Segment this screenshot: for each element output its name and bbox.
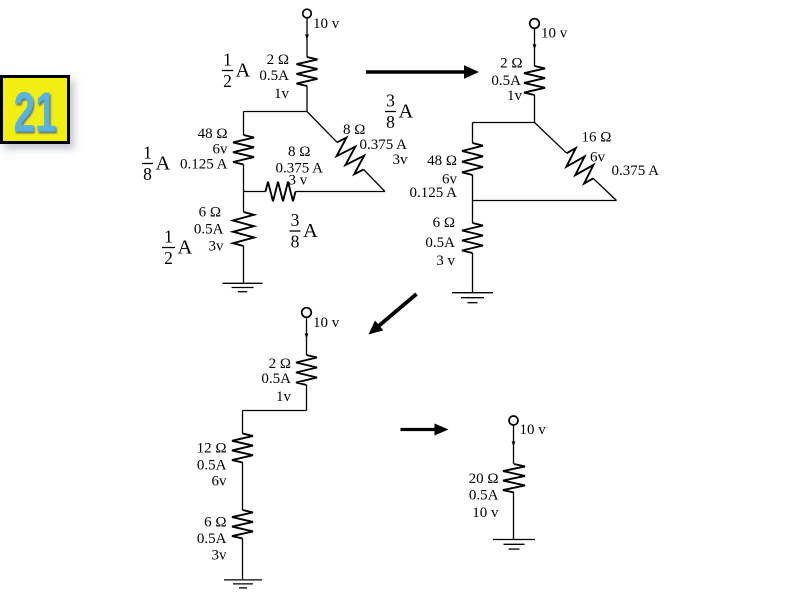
arrow circuit 2 to circuit 3 [369, 294, 417, 335]
label 10 v (circuit 3 source) [313, 315, 340, 331]
wire terminal to R 2ohm (circuit 1) [306, 18, 308, 57]
label 12 ohm value (circuit 3) [197, 441, 227, 457]
label 0.5A (circuit 3 R2) [261, 371, 291, 387]
svg-text:0.125 A: 0.125 A [409, 185, 457, 201]
resistor 20 ohm (circuit 4) [503, 464, 525, 493]
label 0.5A (circuit 1 R6) [194, 222, 224, 238]
current arrow on wire (circuit 2) [533, 44, 537, 49]
resistor 6 ohm (circuit 1) [233, 212, 254, 246]
arrow circuit 1 to circuit 2 [366, 65, 479, 79]
label 0.5A (circuit 2 R6) [425, 235, 455, 251]
label 48 ohm value (circuit 1) [198, 126, 228, 142]
label 6v (circuit 2 R48) [442, 172, 458, 188]
resistor 8 ohm diagonal (circuit 1) [337, 138, 365, 175]
arrow circuit 3 to circuit 4 [401, 424, 449, 436]
svg-text:48 Ω: 48 Ω [427, 153, 457, 169]
svg-text:6 Ω: 6 Ω [199, 205, 221, 221]
label 10 v (circuit 4 R20) [472, 505, 499, 521]
node B horizontal wire (circuit 2) [473, 200, 617, 202]
label 8 ohm value (circuit 1 horizontal) [288, 144, 310, 160]
svg-text:0.5A: 0.5A [194, 222, 224, 238]
label 6 ohm value (circuit 3) [204, 515, 226, 531]
label 3 v (circuit 1 horizontal R8) [289, 173, 308, 189]
svg-text:3v: 3v [393, 152, 409, 168]
svg-text:1v: 1v [274, 86, 290, 102]
svg-text:3: 3 [291, 210, 300, 230]
svg-text:0.5A: 0.5A [469, 488, 499, 504]
wire node A diagonal to R 8ohm diagonal (circuit 1) [307, 112, 337, 143]
current arrow on wire (circuit 4) [512, 441, 516, 446]
wire R 8ohm horizontal to corner (circuit 1) [296, 191, 386, 193]
svg-text:1v: 1v [507, 88, 523, 104]
resistor 12 ohm (circuit 3) [232, 434, 253, 463]
label 10 v (circuit 1 source) [313, 16, 340, 32]
svg-text:0.5A: 0.5A [491, 73, 521, 89]
label 2 ohm value (circuit 2) [500, 56, 522, 72]
ground (circuit 1) [223, 283, 263, 291]
label 0.375 A (circuit 1 diagonal R8) [360, 137, 408, 153]
label 6 ohm value (circuit 1) [199, 205, 221, 221]
label 16 ohm value (circuit 2) [582, 130, 612, 146]
ground (circuit 3) [224, 580, 262, 588]
resistor 16 ohm diagonal (circuit 2) [566, 148, 593, 183]
svg-text:3v: 3v [212, 548, 228, 564]
label 10 v (circuit 2 source) [541, 26, 568, 42]
terminal node 10v (circuit 4) [509, 416, 518, 425]
label 1v (circuit 3 R2) [276, 389, 292, 405]
label 3v (circuit 3 R6) [212, 548, 228, 564]
svg-text:6v: 6v [212, 474, 228, 490]
current arrow on wire (circuit 3) [305, 333, 309, 338]
terminal node 10v (circuit 3) [302, 308, 312, 318]
svg-text:A: A [156, 153, 171, 175]
label 6 ohm value (circuit 2) [433, 215, 455, 231]
label 0.5A (circuit 1 R2) [259, 68, 289, 84]
svg-text:10 v: 10 v [472, 505, 499, 521]
label 2 ohm value (circuit 1) [267, 52, 289, 68]
wire R 16ohm to corner (circuit 2) [593, 178, 616, 200]
fraction 1/2 A (circuit 1 bottom) [162, 227, 193, 269]
ground (circuit 2) [452, 293, 493, 303]
svg-text:A: A [178, 237, 193, 259]
label 3 v (circuit 2 R6) [436, 253, 455, 269]
svg-text:6 Ω: 6 Ω [204, 515, 226, 531]
svg-text:10 v: 10 v [541, 26, 568, 42]
svg-text:1: 1 [164, 227, 173, 247]
wire node A diagonal to R 16ohm (circuit 2) [535, 123, 567, 154]
resistor 6 ohm (circuit 3) [232, 510, 253, 539]
label 0.5A (circuit 3 R12) [197, 458, 227, 474]
wire R 6ohm to ground (circuit 2) [472, 253, 474, 292]
label 0.5A (circuit 2 R2) [491, 73, 521, 89]
label 1v (circuit 1 R2) [274, 86, 290, 102]
resistor 48 ohm (circuit 1) [233, 135, 254, 165]
svg-text:2 Ω: 2 Ω [269, 356, 291, 372]
svg-text:8: 8 [291, 232, 300, 252]
svg-text:6v: 6v [213, 142, 229, 158]
wire terminal to R 2ohm (circuit 3) [306, 318, 308, 356]
resistor 48 ohm (circuit 2) [462, 143, 483, 175]
terminal node 10v (circuit 2) [530, 19, 540, 29]
svg-text:0.5A: 0.5A [197, 531, 227, 547]
fraction 3/8 A (circuit 1 bottom right) [290, 210, 319, 252]
svg-text:8: 8 [386, 112, 395, 132]
svg-text:48 Ω: 48 Ω [198, 126, 228, 142]
resistor 2 ohm (circuit 3) [296, 355, 317, 385]
wire R 12ohm to R 6ohm (circuit 3) [242, 463, 244, 511]
svg-text:20 Ω: 20 Ω [469, 471, 499, 487]
resistor 2 ohm (circuit 1) [297, 57, 318, 86]
wire R 2ohm to node A (circuit 1) [306, 86, 308, 112]
label 6v (circuit 2 R16) [590, 150, 606, 166]
label 0.125 A (circuit 2 R48) [409, 185, 457, 201]
current arrow on wire (circuit 1) [305, 34, 309, 39]
wire terminal to R 20ohm (circuit 4) [513, 425, 515, 464]
svg-text:2 Ω: 2 Ω [500, 56, 522, 72]
wire R 2ohm to node A (circuit 2) [534, 95, 536, 123]
label 0.125 A (circuit 1 R48) [180, 157, 228, 173]
wire node A down to R 48ohm (circuit 1) [243, 112, 245, 136]
wire R 6ohm to ground (circuit 1) [243, 246, 245, 283]
terminal node 10v (circuit 1) [303, 9, 312, 18]
svg-text:10 v: 10 v [313, 16, 340, 32]
svg-text:0.5A: 0.5A [261, 371, 291, 387]
label 6v (circuit 1 R48) [213, 142, 229, 158]
svg-text:16 Ω: 16 Ω [582, 130, 612, 146]
svg-text:0.5A: 0.5A [259, 68, 289, 84]
node A horizontal wire (circuit 2) [473, 122, 535, 124]
label 8 ohm value (circuit 1 diagonal) [343, 122, 365, 138]
svg-text:3: 3 [386, 91, 395, 111]
label 3v (circuit 1 diagonal R8) [393, 152, 409, 168]
svg-text:12 Ω: 12 Ω [197, 441, 227, 457]
ground (circuit 4) [493, 540, 535, 550]
svg-text:A: A [236, 60, 251, 82]
problem number badge 21 [0, 75, 70, 144]
svg-text:3 v: 3 v [289, 173, 308, 189]
wire jog down to R 12ohm (circuit 3) [242, 411, 244, 434]
svg-text:0.5A: 0.5A [197, 458, 227, 474]
label 6v (circuit 3 R12) [212, 474, 228, 490]
svg-text:0.125 A: 0.125 A [180, 157, 228, 173]
label 1v (circuit 2 R2) [507, 88, 523, 104]
svg-text:2: 2 [164, 248, 173, 268]
label 0.375 A (circuit 2 R16) [612, 163, 660, 179]
label 0.5A (circuit 3 R6) [197, 531, 227, 547]
label 20 ohm value (circuit 4) [469, 471, 499, 487]
svg-text:0.375 A: 0.375 A [360, 137, 408, 153]
svg-text:2: 2 [223, 71, 232, 91]
wire node B to R 6ohm (circuit 1) [243, 192, 245, 213]
svg-text:3 v: 3 v [436, 253, 455, 269]
wire node B to R 6ohm (circuit 2) [472, 201, 474, 224]
svg-text:1: 1 [143, 143, 152, 163]
svg-text:0.375 A: 0.375 A [612, 163, 660, 179]
svg-text:A: A [399, 101, 414, 123]
wire R 20ohm to ground (circuit 4) [513, 493, 515, 540]
svg-text:8 Ω: 8 Ω [343, 122, 365, 138]
resistor 6 ohm (circuit 2) [462, 223, 483, 253]
svg-text:1: 1 [223, 50, 232, 70]
svg-text:8: 8 [143, 164, 152, 184]
wire R 6ohm to ground (circuit 3) [242, 539, 244, 580]
fraction 1/8 A (circuit 1 left) [142, 143, 171, 185]
label 0.375 A (circuit 1 horizontal R8) [276, 161, 324, 177]
wire R 8ohm diagonal to corner (circuit 1) [364, 170, 385, 192]
wire node B to R 8ohm horizontal (circuit 1) [244, 191, 266, 193]
wire terminal to R 2ohm (circuit 2) [534, 29, 536, 67]
svg-text:10 v: 10 v [520, 422, 547, 438]
fraction 3/8 A (circuit 1 upper right) [385, 91, 414, 133]
svg-text:0.5A: 0.5A [425, 235, 455, 251]
svg-text:6v: 6v [590, 150, 606, 166]
label 10 v (circuit 4 source) [520, 422, 547, 438]
jog horizontal wire (circuit 3) [243, 410, 307, 412]
resistor 8 ohm horizontal (circuit 1) [266, 182, 296, 202]
svg-text:10 v: 10 v [313, 315, 340, 331]
svg-text:8 Ω: 8 Ω [288, 144, 310, 160]
svg-text:A: A [303, 220, 318, 242]
svg-text:6 Ω: 6 Ω [433, 215, 455, 231]
label 3v (circuit 1 R6) [209, 239, 225, 255]
wire R 2ohm to jog (circuit 3) [306, 385, 308, 411]
svg-text:2 Ω: 2 Ω [267, 52, 289, 68]
wire R 48ohm to node B (circuit 1) [243, 165, 245, 192]
svg-text:3v: 3v [209, 239, 225, 255]
label 2 ohm value (circuit 3) [269, 356, 291, 372]
wire R 48ohm to node B (circuit 2) [472, 175, 474, 201]
svg-text:1v: 1v [276, 389, 292, 405]
label 0.5A (circuit 4 R20) [469, 488, 499, 504]
fraction 1/2 A (circuit 1 top) [222, 50, 251, 92]
wire node A down to R 48ohm (circuit 2) [472, 123, 474, 144]
label 48 ohm value (circuit 2) [427, 153, 457, 169]
resistor 2 ohm (circuit 2) [524, 66, 545, 95]
node A horizontal wire (circuit 1) [244, 111, 308, 113]
